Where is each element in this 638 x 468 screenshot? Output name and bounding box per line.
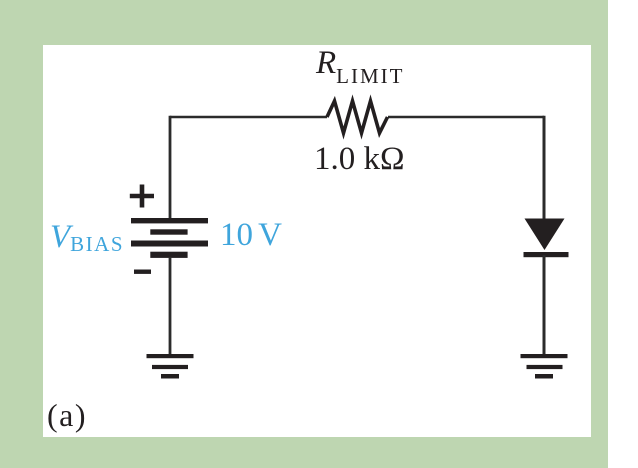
battery VBIAS plate 1 (long) [131,218,208,223]
plus sign [130,185,154,208]
battery plate 4 (short) [150,252,187,258]
diode D1 triangle [525,219,565,251]
label 1.0 kOhm [314,143,405,176]
wire right vertical (bottom) [543,255,546,356]
white panel [43,45,591,437]
battery plate 2 (short) [150,229,187,234]
wire left vertical (top) [169,116,172,219]
wire top-right horizontal [388,116,544,119]
ground right line 2 [527,365,563,369]
wire right vertical (top) [543,116,546,221]
resistor R_LIMIT zigzag [327,101,388,133]
ground right line 1 [521,354,568,358]
wire top-left horizontal [170,116,327,119]
minus sign [134,270,151,274]
label V_BIAS [50,221,124,261]
label 10 V [220,219,282,252]
diode D1 cathode bar [524,252,569,257]
ground left line 1 [147,354,194,358]
wire left vertical (bottom) [169,257,172,356]
ground left line 2 [152,365,188,369]
ground right line 3 [535,374,553,379]
battery plate 3 (long) [131,241,208,247]
ground left line 3 [161,374,179,379]
label (a) [47,399,87,431]
label R_LIMIT [316,47,405,93]
